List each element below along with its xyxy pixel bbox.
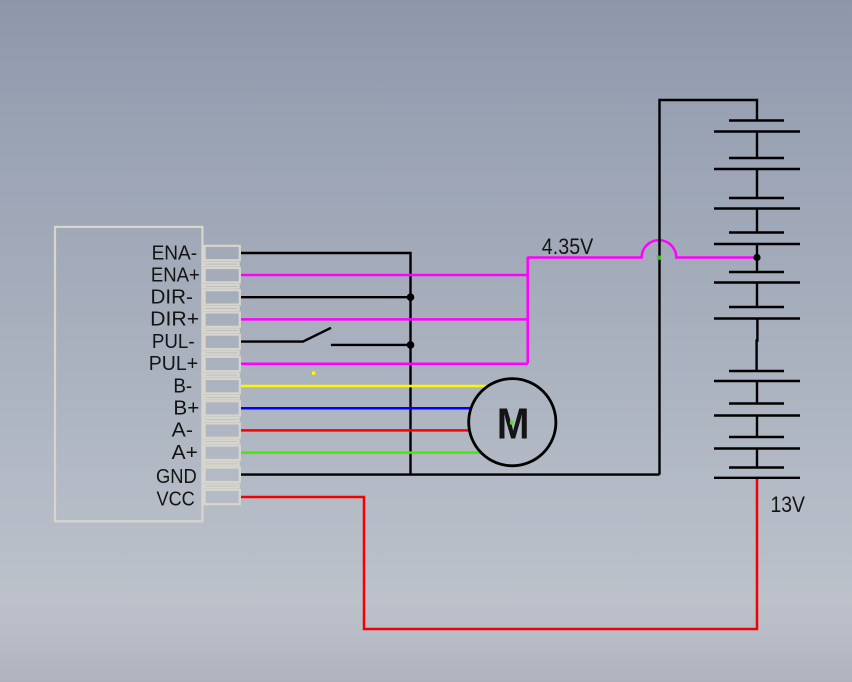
pin box 6 PUL+: [205, 357, 240, 371]
pin spacer 7: [205, 396, 239, 399]
wire ENA+ magenta: [241, 274, 528, 277]
wire B+ blue: [241, 407, 471, 410]
battery cell 9: [729, 436, 784, 438]
svg-text:13V: 13V: [771, 492, 806, 517]
green crossing tick: [657, 256, 661, 260]
pin box 3 DIR-: [205, 290, 240, 304]
green speck in motor: [510, 421, 513, 425]
battery link 2-3: [756, 169, 758, 198]
pin box 12 VCC: [205, 490, 240, 504]
battery link 6-7 with jog: [755, 319, 758, 372]
svg-text:B-: B-: [173, 374, 192, 397]
pin box 10 A+: [205, 446, 240, 460]
pin box 5 PUL-: [205, 335, 240, 349]
svg-text:A-: A-: [172, 419, 193, 442]
battery link 4-5 with tap: [756, 244, 758, 272]
pin box 11 GND: [205, 468, 240, 482]
battery cell 3: [729, 197, 784, 199]
pin terminal boxes: [205, 246, 240, 504]
wire ENA- to vertical bus and down to GND: [241, 253, 411, 475]
pin box 4 DIR+: [205, 312, 240, 326]
pin box 7 B-: [205, 379, 240, 393]
battery cell 6: [729, 306, 784, 308]
junction dot DIR- bus: [407, 293, 415, 301]
wire DIR-: [241, 296, 411, 298]
yellow speck: [312, 372, 315, 375]
svg-text:4.35V: 4.35V: [542, 234, 594, 259]
svg-text:PUL-: PUL-: [152, 330, 195, 353]
motor M1 circle: [469, 379, 556, 466]
battery BT1 cells: [714, 121, 800, 478]
pin spacer 3: [205, 307, 239, 310]
battery link 8-9: [756, 416, 758, 438]
battery cell 5: [729, 271, 784, 273]
wire 4.35V magenta to battery tap with hop: [528, 240, 757, 257]
junction dot battery tap: [753, 254, 760, 261]
wire magenta vertical join: [526, 257, 529, 364]
pin spacer 8: [205, 418, 239, 421]
pin spacer 4: [205, 329, 239, 332]
pin box 1 ENA-: [205, 246, 240, 260]
svg-text:PUL+: PUL+: [149, 352, 198, 375]
connector block J1 outline: [55, 227, 202, 521]
svg-text:DIR-: DIR-: [151, 286, 193, 309]
svg-text:B+: B+: [173, 397, 199, 420]
svg-text:DIR+: DIR+: [150, 308, 199, 331]
wire A+ green: [241, 451, 482, 454]
wire VCC red to battery bottom: [241, 478, 757, 630]
battery link 5-6: [756, 283, 758, 308]
wire GND: [241, 473, 660, 475]
pin spacer 1: [205, 263, 239, 266]
wire GND loop up to battery top: [660, 100, 758, 475]
pin spacer 10: [205, 463, 239, 466]
wire B- yellow: [241, 385, 489, 388]
battery link 7-8: [756, 381, 758, 404]
svg-text:ENA+: ENA+: [151, 263, 200, 286]
battery link 3-4: [756, 209, 758, 233]
pin box 8 B+: [205, 401, 240, 415]
wire A- red: [241, 429, 470, 432]
battery link 9-10: [756, 449, 758, 468]
wire DIR+ magenta: [241, 318, 528, 321]
pin spacer 5: [205, 352, 239, 355]
switch SW1 lever: [303, 328, 332, 342]
svg-text:A+: A+: [172, 441, 198, 464]
battery cell 1: [729, 119, 784, 121]
battery cell 10: [729, 466, 784, 468]
pin box 2 ENA+: [205, 268, 240, 282]
battery link 1-2: [756, 132, 758, 159]
junction dot PUL- bus: [407, 341, 415, 349]
pin spacer 6: [205, 374, 239, 377]
svg-text:GND: GND: [156, 465, 197, 488]
battery cell 2: [729, 157, 784, 159]
wire PUL- left segment: [241, 340, 303, 342]
pin box 9 A-: [205, 423, 240, 437]
wire PUL- right segment: [331, 344, 411, 346]
battery cell 7: [729, 370, 784, 372]
pin spacer 9: [205, 440, 239, 443]
pin spacer 2: [205, 285, 239, 288]
pin spacer 11: [205, 485, 239, 488]
battery cell 4: [729, 231, 784, 233]
battery cell 8: [729, 402, 784, 404]
svg-text:VCC: VCC: [157, 487, 195, 510]
wire PUL+ magenta: [241, 363, 528, 366]
svg-text:ENA-: ENA-: [152, 241, 198, 264]
